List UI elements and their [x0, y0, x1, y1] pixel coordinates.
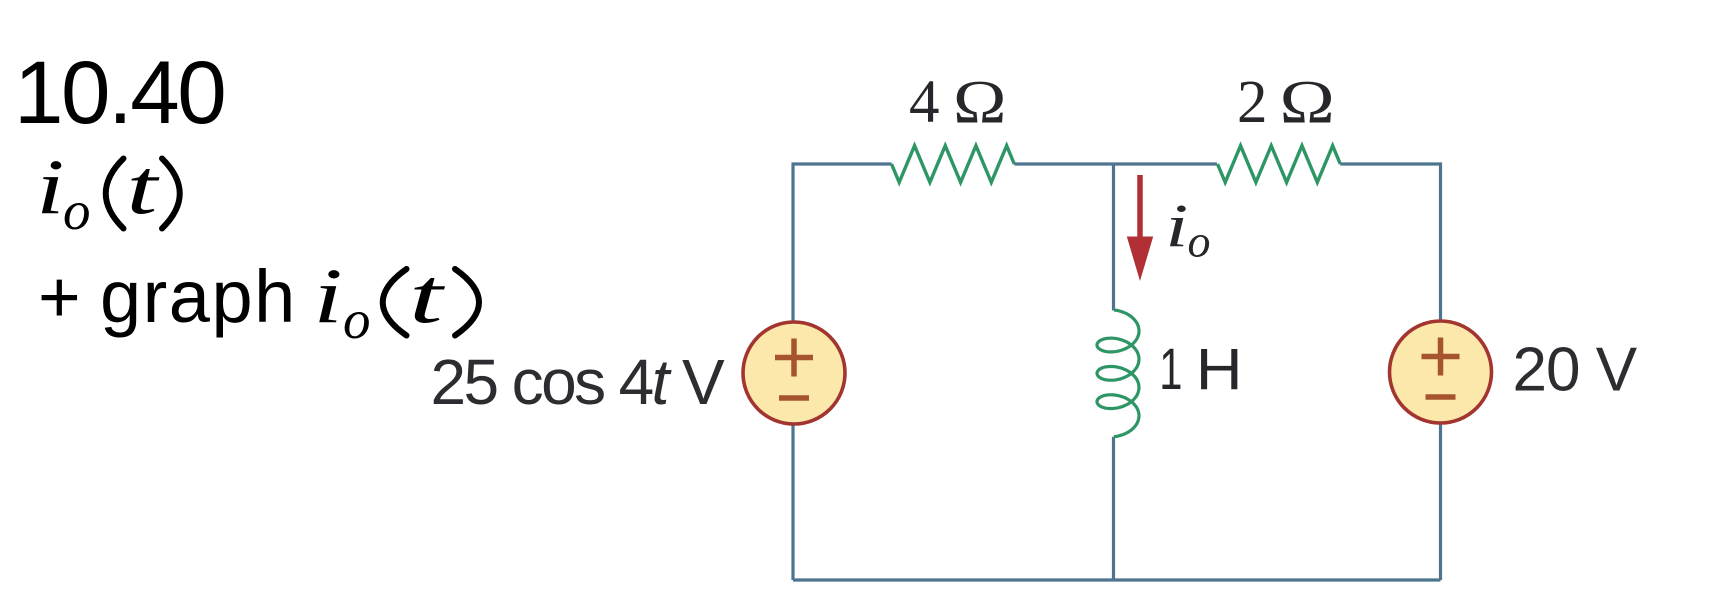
svg-text:graph: graph — [100, 255, 297, 338]
svg-text:i: i — [36, 143, 64, 230]
inductor L1 coil — [1097, 310, 1139, 437]
svg-text:i: i — [1165, 191, 1188, 259]
wire top-right and right side — [1340, 164, 1440, 580]
svg-text:2: 2 — [1237, 69, 1268, 136]
svg-text:25 cos 4t V: 25 cos 4t V — [431, 346, 726, 418]
svg-text:o: o — [343, 289, 371, 350]
svg-text:i: i — [313, 253, 342, 340]
svg-text:t: t — [409, 253, 446, 340]
label io current — [1165, 191, 1210, 266]
wire top-left segment and left side — [793, 164, 892, 580]
resistor R1 4ohm zigzag — [892, 146, 1015, 183]
svg-text:o: o — [1188, 216, 1211, 267]
svg-text:4: 4 — [909, 69, 940, 136]
label 4 ohm — [909, 69, 1006, 136]
voltage source V1 25cos4t circle — [743, 322, 845, 424]
svg-text:t: t — [127, 144, 161, 230]
voltage source V2 20V circle — [1390, 321, 1492, 423]
svg-text:o: o — [63, 180, 91, 241]
wire middle branch — [1112, 164, 1115, 580]
svg-text:Ω: Ω — [1280, 68, 1335, 136]
label 2 ohm — [1237, 68, 1335, 136]
wire top-middle segment — [1014, 162, 1217, 165]
svg-text:Ω: Ω — [953, 69, 1006, 136]
svg-text:H: H — [1196, 337, 1243, 402]
resistor R2 2ohm zigzag — [1218, 146, 1341, 183]
current arrow io — [1127, 175, 1153, 281]
annotation + graph io(t) — [38, 253, 479, 350]
label 1 H — [1159, 336, 1242, 402]
svg-text:10.40: 10.40 — [14, 42, 224, 142]
svg-text:+: + — [38, 257, 81, 338]
svg-text:1: 1 — [1159, 336, 1182, 401]
svg-text:20 V: 20 V — [1513, 336, 1638, 405]
node label io(t) line — [36, 143, 180, 241]
wire bottom — [793, 578, 1441, 581]
